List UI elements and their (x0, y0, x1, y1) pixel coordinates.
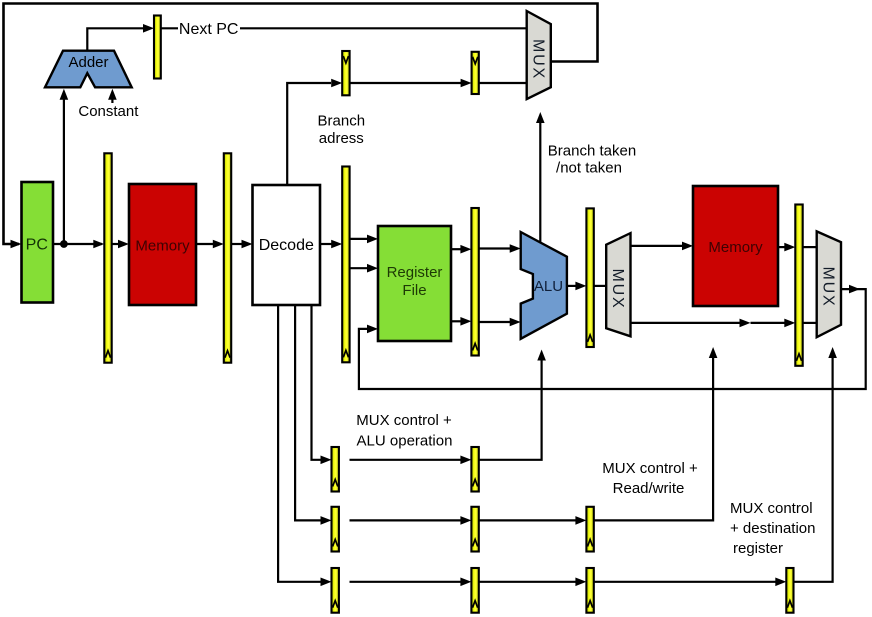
wire bypass continues to MEM/WB register (751, 322, 786, 324)
memory data Memory (693, 186, 778, 306)
svg-text:ALU operation: ALU operation (357, 432, 453, 449)
svg-text:Next PC: Next PC (179, 21, 239, 38)
wire Register File output 1 to EX register (451, 248, 461, 250)
label Constant (78, 103, 139, 120)
arrow into destination bar 1 (321, 578, 332, 587)
memory instruction Memory (129, 184, 196, 305)
mux execute MUX (606, 233, 630, 336)
arrow into EX bar from output 1 (460, 245, 471, 254)
pipeline register IF/ID bar (104, 153, 111, 362)
arrow into read-write bar 2 (460, 516, 471, 525)
decoder Decode (253, 185, 321, 305)
arrow into destination bar 2 (460, 578, 471, 587)
wire destination row bar to bar 2 (479, 581, 576, 583)
wire branch taken from ALU to top MUX (539, 119, 541, 250)
register PC (22, 182, 54, 303)
wire Decode control riser to ALU-operation row (312, 305, 322, 460)
wire branch address bar to bar (351, 82, 462, 84)
wire EX register to ALU input 2 (479, 321, 510, 323)
label MUX (top) (530, 39, 547, 80)
wire ALU-operation row up to ALU (479, 355, 542, 460)
arrow into Register File input 2 (367, 264, 378, 273)
arrow into read-write bar 1 (321, 516, 332, 525)
control register destination bar 4 (786, 568, 793, 613)
arrow destination up to final MUX (828, 347, 837, 358)
wire MUX bypass to MEM/WB register (631, 322, 741, 324)
control register destination bar 1 (332, 568, 339, 613)
wire branch address to top MUX (479, 82, 527, 84)
pipeline register branch-address bar 1 (342, 51, 349, 95)
wire branch address from Decode top (287, 83, 331, 186)
wire EX/MEM register to MUX (595, 285, 608, 287)
wire read-write row up to data Memory (595, 352, 714, 520)
control register destination bar 2 (471, 568, 478, 613)
wire data Memory output to MEM/WB register (778, 246, 785, 248)
arrow into Register File input 1 (367, 235, 378, 244)
label MUX control + Read/write (602, 460, 698, 497)
svg-text:/not taken: /not taken (556, 160, 622, 177)
svg-text:ALU: ALU (534, 278, 563, 295)
label ALU (534, 278, 563, 295)
wire IF/ID register to Memory (112, 243, 119, 245)
wire Memory to pipeline register (196, 243, 213, 245)
label Decode (259, 237, 314, 254)
node PC output junction (60, 240, 68, 248)
wire ALU output to EX/MEM register (567, 285, 576, 287)
arrow into IF/ID bar (93, 240, 104, 249)
svg-text:MUX: MUX (609, 269, 626, 310)
svg-text:File: File (402, 282, 426, 299)
label MUX control + ALU operation (356, 412, 452, 449)
arrow into ID/EX bar (331, 240, 342, 249)
arrow into EX bar from output 2 (460, 317, 471, 326)
wire MEM/WB register to final MUX input 2 (803, 322, 817, 324)
label Branch adress (318, 112, 366, 147)
svg-text:adress: adress (319, 130, 364, 147)
arrow on bypass wire (740, 319, 751, 328)
wire Register File output 2 to EX register (451, 320, 461, 322)
mux writeback MUX (817, 231, 841, 337)
pipeline register MEM/WB bar (795, 205, 802, 366)
wire Decode to ID/EX register (320, 243, 332, 245)
arrow into destination bar 4 (775, 578, 786, 587)
arrow branch taken into top MUX (536, 112, 545, 123)
arrow into ALU-op bar 2 (460, 456, 471, 465)
adder Adder (45, 51, 132, 88)
wire pipeline register to Decode (232, 243, 243, 245)
wire MUX to data Memory (631, 245, 683, 247)
wire Decode control riser to read-write row (295, 305, 321, 520)
arrow ALU operation up to ALU (537, 350, 546, 361)
arrow into EX/MEM bar (575, 282, 586, 291)
arrow into next-PC bar (143, 24, 154, 33)
svg-text:MUX control +: MUX control + (356, 412, 452, 429)
label MUX (writeback) (820, 267, 837, 308)
label Register File (387, 264, 443, 299)
wire destination row bar to bar 3 (595, 581, 777, 583)
label MUX control + destination register (730, 500, 815, 557)
arrow into ALU input 1 (510, 244, 521, 253)
svg-text:MUX: MUX (530, 39, 547, 80)
label Next PC (179, 21, 239, 38)
arrow into branch-address bar 2 (461, 79, 472, 88)
svg-text:Read/write: Read/write (613, 480, 685, 497)
wire read-write row bar to bar 2 (479, 519, 576, 521)
arrow into ALU-op bar 1 (321, 456, 332, 465)
svg-text:PC: PC (26, 237, 48, 254)
wire read-write row bar to bar (350, 519, 462, 521)
wire Next PC register to label stub (161, 27, 178, 29)
pipeline register fetch bar (224, 153, 231, 362)
wire next-PC feedback loop (top MUX output to PC input) (4, 4, 598, 245)
svg-text:MUX control +: MUX control + (602, 460, 698, 477)
arrow on writeback output (849, 285, 860, 294)
arrow into branch-address bar 1 (331, 79, 342, 88)
wire destination row bar to bar (350, 581, 462, 583)
wire ALU-operation row bar to bar (350, 459, 462, 461)
svg-text:Decode: Decode (259, 237, 314, 254)
arrow into PC (11, 240, 22, 249)
mux next-PC MUX (527, 11, 551, 99)
svg-text:Memory: Memory (708, 239, 763, 256)
wire register to Register File input 2 (350, 267, 368, 269)
wire Next PC label to top MUX (240, 27, 527, 29)
control register ALU-op bar 1 (332, 447, 339, 492)
control register destination bar 3 (586, 568, 593, 613)
svg-text:Adder: Adder (68, 54, 108, 71)
arrow into fetch bar (213, 240, 224, 249)
svg-text:MUX control: MUX control (730, 500, 813, 517)
arrow into data Memory (682, 242, 693, 251)
label PC (26, 237, 48, 254)
wire Adder output to Next PC register (87, 28, 143, 52)
control register ALU-op bar 2 (471, 447, 478, 492)
svg-text:Memory: Memory (135, 238, 190, 255)
svg-text:register: register (733, 540, 783, 557)
arrow into read-write bar 3 (575, 516, 586, 525)
svg-text:Branch taken: Branch taken (548, 143, 636, 160)
svg-text:Constant: Constant (78, 103, 139, 120)
pipeline register next-PC bar (154, 16, 161, 79)
control register read-write bar 3 (586, 507, 593, 552)
svg-text:Branch: Branch (318, 112, 366, 129)
control register read-write bar 1 (332, 507, 339, 552)
pipeline register ID/EX bar (342, 167, 349, 363)
svg-text:+ destination: + destination (730, 520, 815, 537)
arrow into MEM/WB bar from bypass (784, 319, 795, 328)
arrow into Register File writeback input (367, 325, 378, 334)
label Adder (68, 54, 108, 71)
control register read-write bar 2 (471, 507, 478, 552)
arrow into Adder from PC (60, 89, 69, 100)
arrow read-write up to data Memory (709, 347, 718, 358)
alu ALU (521, 232, 567, 339)
label Branch taken /not taken (548, 143, 636, 177)
label Memory (data) (708, 239, 763, 256)
wire destination row up to final MUX (794, 352, 833, 582)
label MUX (execute) (609, 269, 626, 310)
wire PC output to IF/ID pipeline register (53, 243, 102, 245)
arrow into ALU input 2 (510, 318, 521, 327)
wire PC riser to Adder (63, 93, 65, 244)
svg-text:Register: Register (387, 264, 443, 281)
pipeline register EX/MEM bar (586, 208, 593, 347)
arrow into Adder from Constant (108, 89, 117, 100)
wire MEM/WB register to final MUX input 1 (803, 246, 817, 248)
pipeline register EX bar (471, 208, 478, 356)
wire Decode control riser to destination-register row (278, 305, 321, 582)
arrow into instruction Memory (118, 240, 129, 249)
arrow into Decode (242, 240, 253, 249)
svg-text:MUX: MUX (820, 267, 837, 308)
register-file Register File (378, 226, 451, 341)
pipeline register branch-address bar 2 (472, 52, 479, 94)
wire EX register to ALU input 1 (479, 247, 510, 249)
arrow into destination bar 3 (575, 578, 586, 587)
wire writeback from final MUX to Register File (359, 289, 866, 389)
label Memory (instruction) (135, 238, 190, 255)
wire register to Register File input 1 (350, 238, 368, 240)
arrow into MEM/WB bar from Memory (784, 243, 795, 252)
wire Constant stub to Adder (111, 93, 113, 103)
